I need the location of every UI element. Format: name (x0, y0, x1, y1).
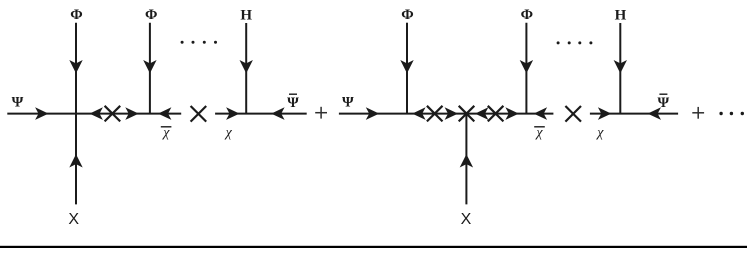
arrow right toward vertex 2 (d2) (505, 107, 518, 120)
svg-text:χ: χ (161, 126, 170, 141)
svg-text:Φ: Φ (401, 7, 413, 23)
svg-text:Φ: Φ (145, 7, 157, 23)
svg-text:H: H (615, 7, 627, 23)
standalone cross between chi-bar and chi segments (d1) (191, 106, 207, 122)
svg-text:Ψ: Ψ (12, 95, 24, 111)
arrow left toward vertex 2, chi-bar side (d2) (534, 107, 547, 120)
standalone cross between chi-bar and chi segments (d2) (565, 106, 581, 122)
svg-text:Ψ: Ψ (287, 95, 299, 111)
wire: vertical X line at center vertex (d2) (465, 114, 467, 205)
arrow left toward vertex 1 (d1) (90, 107, 103, 120)
cross at center X vertex (d2) (459, 106, 475, 122)
wire: main fermion line segment 1 (d1) (7, 113, 181, 115)
arrow left on outgoing Psi-bar line (d1) (271, 107, 284, 120)
arrow down on Phi line 1 (d2) (400, 60, 413, 73)
arrow left toward center vertex (d2) (475, 107, 488, 120)
svg-text:χ: χ (534, 126, 543, 141)
svg-text:χ: χ (224, 126, 233, 141)
trailing ellipsis dots (719, 112, 722, 115)
wire: vertical Phi line at vertex 2 (d1) (149, 23, 151, 114)
arrow down on H line (d1) (240, 60, 253, 73)
ellipsis dots between Phi and H (d2) (557, 41, 560, 44)
mass-insertion cross right of center (d2) (488, 106, 504, 122)
arrow left toward vertex 2, chi-bar side (d1) (158, 107, 171, 120)
arrow down on Phi line 2 (d1) (143, 60, 156, 73)
wire: vertical Phi line at vertex 1 (d2) (406, 23, 408, 114)
mass-insertion cross left of center (d2) (427, 106, 443, 122)
arrow right on incoming Psi line (d2) (366, 107, 379, 120)
wire: main fermion line segment 1 (d2) (339, 113, 554, 115)
svg-text:Ψ: Ψ (342, 95, 354, 111)
svg-text:Φ: Φ (70, 7, 82, 23)
wire: main fermion line segment 2 (d1) (215, 113, 307, 115)
arrow right toward vertex 2 (d1) (125, 107, 138, 120)
arrow down on Phi line 2 (d2) (520, 60, 533, 73)
svg-text:X: X (461, 211, 472, 228)
svg-text:χ: χ (595, 126, 604, 141)
trailing plus sign (692, 112, 704, 114)
ellipsis dots between Phi and H (d1) (181, 41, 184, 44)
wire: vertical Phi line at vertex 2 (d2) (525, 23, 527, 114)
arrow right toward center vertex (d2) (445, 107, 458, 120)
page footer rule (0, 246, 747, 248)
arrow right toward vertex 3, chi side (d1) (226, 107, 239, 120)
arrow left toward vertex 1 (d2) (412, 107, 425, 120)
mass-insertion cross on line between vertex1 and vertex2 (d1) (105, 106, 121, 122)
svg-text:Ψ: Ψ (658, 95, 670, 111)
wire: main fermion line segment 2 (d2) (590, 113, 678, 115)
arrow right on incoming Psi line (d1) (35, 107, 48, 120)
svg-text:Φ: Φ (521, 7, 533, 23)
wire: vertical Phi/X line at vertex 1 (d1) (75, 23, 77, 205)
arrow right toward vertex 3, chi side (d2) (598, 107, 611, 120)
svg-text:X: X (68, 211, 79, 228)
arrow up on X line (d1) (69, 154, 82, 167)
arrow up on X line (d2) (460, 154, 473, 167)
svg-text:H: H (240, 7, 252, 23)
arrow down on Phi line 1 (d1) (69, 60, 82, 73)
arrow down on H line (d2) (614, 60, 627, 73)
wire: vertical H line at vertex 3 (d2) (619, 23, 621, 114)
arrow left on outgoing Psi-bar line (d2) (648, 107, 661, 120)
wire: vertical H line at vertex 3 (d1) (245, 23, 247, 114)
plus sign between diagrams (315, 112, 327, 114)
